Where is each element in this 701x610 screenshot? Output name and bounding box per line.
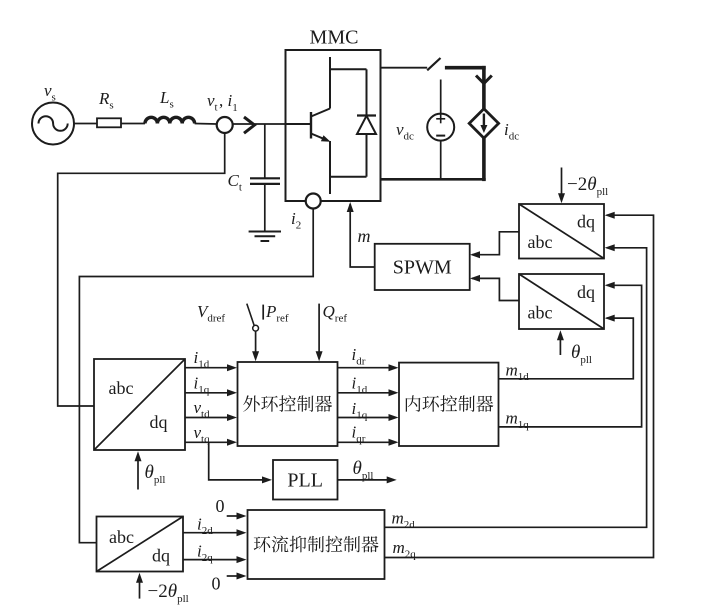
svg-text:0: 0 xyxy=(216,496,225,516)
wire to SPWM upper xyxy=(472,232,519,255)
transform block abc-dq bottom xyxy=(97,517,184,572)
wire i_1d xyxy=(185,367,229,369)
wire xyxy=(233,123,286,125)
wire P_ref xyxy=(255,331,257,355)
wire xyxy=(264,184,266,232)
label i_1q xyxy=(194,373,210,396)
arrow xyxy=(237,556,247,563)
label i_qr xyxy=(352,423,366,446)
diode D1 xyxy=(357,69,376,176)
svg-text:dq: dq xyxy=(577,282,595,302)
label Q_ref xyxy=(323,302,348,325)
label v_td xyxy=(194,398,211,421)
wire loop bottom xyxy=(330,176,367,178)
label m_1d xyxy=(506,361,530,384)
wire dc bus top xyxy=(381,67,428,69)
wire i_2 feedback xyxy=(79,209,313,543)
wire xyxy=(482,138,486,181)
arrow xyxy=(227,364,237,371)
wire theta_pll out xyxy=(338,479,389,481)
wire -2theta_pll bottom xyxy=(139,579,141,599)
ac source v_s xyxy=(32,103,74,145)
arrow i_1 xyxy=(244,117,255,133)
label i_1q xyxy=(352,399,368,422)
wire xyxy=(195,123,217,126)
svg-text:dq: dq xyxy=(150,412,168,432)
label L_s xyxy=(159,88,174,111)
inductor L_s xyxy=(145,117,195,123)
arrow xyxy=(558,193,565,203)
block inner controller xyxy=(399,363,499,446)
wire i_2q xyxy=(183,559,238,561)
wire loop top xyxy=(330,68,367,70)
block SPWM xyxy=(375,244,470,290)
switch S1 xyxy=(427,58,440,70)
arrow xyxy=(605,212,615,219)
igbt emitter xyxy=(311,134,331,195)
wire xyxy=(264,124,266,178)
wire Q_ref xyxy=(318,304,320,356)
voltage source v_dc xyxy=(427,80,454,180)
arrow xyxy=(316,351,323,361)
arrow xyxy=(605,315,615,322)
arrow xyxy=(389,414,399,421)
arrow xyxy=(135,451,142,461)
svg-text:dq: dq xyxy=(577,212,595,232)
label v_dc xyxy=(396,120,414,143)
label i_1d xyxy=(352,374,368,397)
switch ref select xyxy=(247,304,263,332)
label -2theta_pll xyxy=(567,174,608,198)
node v_t xyxy=(217,117,233,133)
svg-text:MMC: MMC xyxy=(310,27,359,49)
svg-text:0: 0 xyxy=(212,574,221,594)
wire v_td xyxy=(185,417,229,419)
wire i_qr xyxy=(338,441,391,443)
svg-text:abc: abc xyxy=(528,232,553,252)
label theta_pll mid xyxy=(145,462,166,486)
label -2theta_pll bottom xyxy=(148,581,189,605)
wire v_tq to PLL xyxy=(209,442,264,480)
arrow i_dc direction xyxy=(476,76,492,84)
arrow xyxy=(237,529,247,536)
arrow xyxy=(387,476,397,483)
converter MMC box xyxy=(286,50,381,201)
svg-text:abc: abc xyxy=(528,303,553,323)
wire m_1d xyxy=(499,318,634,379)
svg-text:PLL: PLL xyxy=(287,470,323,492)
wire theta_pll mid xyxy=(137,457,139,490)
label i_1d xyxy=(194,348,210,371)
transform block abc-dq upper xyxy=(519,204,604,259)
label MMC xyxy=(310,27,359,49)
arrow xyxy=(136,573,143,583)
arrow xyxy=(227,439,237,446)
arrow xyxy=(237,573,247,580)
arrow xyxy=(470,275,480,282)
wire i_2d xyxy=(183,532,238,534)
wire -2theta_pll xyxy=(561,168,563,198)
wire i_1q xyxy=(185,392,229,394)
label i_dc xyxy=(504,120,519,143)
arrow m xyxy=(347,202,354,212)
label zero lower xyxy=(212,574,221,594)
wire i_1d xyxy=(338,392,391,394)
label P_ref xyxy=(265,302,289,325)
svg-text:abc: abc xyxy=(109,527,134,547)
label m xyxy=(358,226,371,246)
wire zero lower xyxy=(227,575,239,577)
label i_dr xyxy=(352,345,366,368)
arrow xyxy=(262,476,272,483)
label v_tq xyxy=(194,423,211,446)
arrow xyxy=(389,364,399,371)
wire m_1q xyxy=(499,285,642,427)
label v_s xyxy=(44,81,56,104)
wire dc bus bottom xyxy=(381,178,486,181)
arrow xyxy=(237,513,247,520)
block outer controller xyxy=(238,362,338,446)
wire m_2d xyxy=(385,248,647,528)
label R_s xyxy=(98,89,114,112)
wire m_2q xyxy=(385,215,654,557)
svg-text:dq: dq xyxy=(152,546,170,566)
block circulating current suppression controller xyxy=(248,510,385,579)
label theta_pll xyxy=(571,342,592,366)
label v_t, i_1 xyxy=(207,91,238,114)
wire dc thick xyxy=(445,66,486,110)
wire theta_pll xyxy=(559,336,561,355)
igbt gate bar xyxy=(310,112,312,139)
arrow xyxy=(605,282,615,289)
arrow xyxy=(389,439,399,446)
block PLL xyxy=(273,460,338,500)
arrow xyxy=(227,414,237,421)
wire v_tq xyxy=(185,441,229,443)
svg-text:abc: abc xyxy=(109,378,134,398)
wire m xyxy=(350,204,375,267)
arrow xyxy=(470,251,480,258)
label theta_pll out xyxy=(353,458,374,482)
igbt collector xyxy=(311,57,330,117)
wire zero upper xyxy=(227,515,239,517)
wire to SPWM lower xyxy=(472,278,519,300)
current source i_dc xyxy=(469,109,498,138)
arrow xyxy=(605,244,615,251)
label i_2 xyxy=(291,209,301,232)
label i_2d xyxy=(197,515,213,538)
arrow xyxy=(252,351,259,361)
svg-text:m: m xyxy=(358,226,371,246)
label V_dref xyxy=(197,302,225,325)
svg-text:SPWM: SPWM xyxy=(393,257,452,279)
label zero upper xyxy=(216,496,225,516)
wire i_1q xyxy=(338,417,391,419)
transform block abc-dq lower xyxy=(519,274,604,329)
arrow xyxy=(557,330,564,340)
wire i_dr xyxy=(338,367,391,369)
wire v_t feedback xyxy=(58,133,225,406)
wire xyxy=(121,123,145,125)
arrow xyxy=(389,389,399,396)
node i_2 xyxy=(306,194,321,209)
label i_2q xyxy=(197,542,213,565)
capacitor C_t xyxy=(250,178,280,184)
label m_2d xyxy=(392,509,416,532)
label C_t xyxy=(228,171,242,194)
wire igbt base xyxy=(286,123,312,125)
label m_1q xyxy=(506,409,530,432)
label m_2q xyxy=(393,538,417,561)
wire xyxy=(74,123,97,125)
resistor R_s xyxy=(97,118,121,127)
transform block abc-dq mid xyxy=(94,359,185,450)
ground xyxy=(249,232,281,242)
arrow xyxy=(227,389,237,396)
